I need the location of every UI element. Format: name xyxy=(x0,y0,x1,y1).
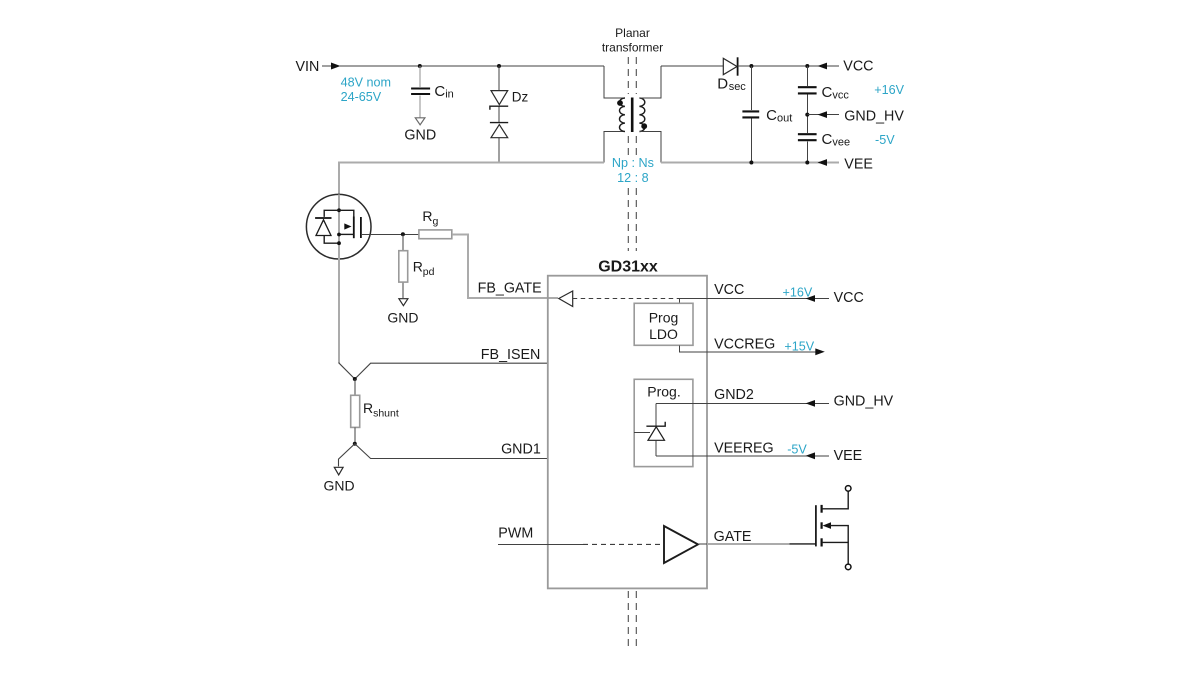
node junction dot Dz xyxy=(497,64,501,68)
value label Np Ns ratio xyxy=(612,156,654,185)
wire Rpd stub xyxy=(402,234,404,298)
transistor Q2 channel segments xyxy=(820,505,822,547)
svg-text:GND: GND xyxy=(404,127,436,143)
wire bottom rail left gray xyxy=(339,163,604,364)
node dot Cvee rail bottom xyxy=(805,161,809,165)
gate driver buffer triangle xyxy=(664,526,698,563)
svg-text:transformer: transformer xyxy=(602,41,663,55)
transistor Q1 body arrow xyxy=(344,223,351,229)
wire Cin stub xyxy=(419,66,421,118)
FB_GATE receiver buffer triangle xyxy=(559,291,573,307)
wire Cout branch xyxy=(750,66,752,163)
diode Dz top zener xyxy=(490,91,508,110)
VCC arrow mid xyxy=(806,295,816,302)
wire GATE external gray xyxy=(707,543,790,545)
svg-text:VCCREG: VCCREG xyxy=(714,336,775,352)
svg-text:Dz: Dz xyxy=(512,90,529,105)
transformer T1 secondary winding xyxy=(639,98,644,132)
svg-text:+15V: +15V xyxy=(784,340,814,354)
svg-text:48V nom: 48V nom xyxy=(341,76,391,90)
svg-text:GND1: GND1 xyxy=(501,442,541,458)
ground GND below Rshunt xyxy=(323,467,354,493)
node dot Q1 anode junction xyxy=(337,241,341,245)
wire transformer primary bottom step xyxy=(604,132,625,163)
svg-text:+16V: +16V xyxy=(783,286,813,300)
transistor Q2 drain terminal xyxy=(845,486,851,492)
wire Q1 gate to Rg xyxy=(361,233,419,235)
capacitor Cvcc value label xyxy=(822,84,850,102)
ground GND below Cin xyxy=(404,118,436,144)
svg-text:Planar: Planar xyxy=(615,26,650,40)
capacitor Cin xyxy=(411,89,430,95)
svg-text:VCC: VCC xyxy=(843,59,873,75)
svg-text:12 : 8: 12 : 8 xyxy=(617,171,649,185)
node dot Rshunt bottom xyxy=(353,442,357,446)
svg-text:PWM: PWM xyxy=(498,525,533,541)
wire VCC external xyxy=(707,298,829,300)
diode Dz bottom zener xyxy=(490,123,508,138)
wire Cvcc Cvee rail xyxy=(806,66,808,163)
svg-text:GND_HV: GND_HV xyxy=(844,108,904,124)
transistor Q1 channel bar xyxy=(353,217,355,239)
wire VEEREG external xyxy=(707,455,829,457)
resistor R_pd label xyxy=(413,258,435,278)
transistor Q2 drain lead xyxy=(822,491,849,509)
wire GND1 diagonal xyxy=(339,444,548,467)
svg-text:pd: pd xyxy=(423,266,435,278)
VEE arrow top xyxy=(818,159,828,166)
capacitor Cin value label xyxy=(434,83,453,101)
op-amp U1 GD31xx IC outline xyxy=(548,276,707,589)
transistor Q1 drain elbow xyxy=(339,210,354,216)
resistor R_shunt xyxy=(351,395,360,427)
diode Q1 body diode cathode link xyxy=(324,210,339,217)
transformer primary polarity dot xyxy=(617,100,623,106)
capacitor Cout xyxy=(742,111,759,117)
wire VCCREG from LDO xyxy=(680,345,708,352)
diode Q1 body diode xyxy=(315,218,331,236)
svg-text:FB_ISEN: FB_ISEN xyxy=(481,347,541,363)
wire VCCREG external xyxy=(707,351,816,353)
svg-text:in: in xyxy=(445,89,454,101)
wire transformer secondary bottom step xyxy=(639,132,661,163)
wire VCC to Prog LDO xyxy=(680,299,708,305)
capacitor Cvee value label xyxy=(822,131,851,149)
VCCREG arrow right xyxy=(815,348,825,355)
node dot Cvcc rail top xyxy=(805,64,809,68)
svg-text:R: R xyxy=(413,258,423,274)
transistor Q2 source lead xyxy=(822,542,849,564)
svg-text:GND_HV: GND_HV xyxy=(834,393,894,409)
transformer T1 primary winding xyxy=(619,98,624,132)
svg-text:GND: GND xyxy=(387,309,418,325)
transistor Q2 body arrow xyxy=(823,522,849,542)
wire secondary top rail to Dsec xyxy=(661,65,723,67)
node dot Rshunt top xyxy=(353,377,357,381)
dashed axis below IC xyxy=(628,591,636,648)
diode Dsec xyxy=(723,57,737,75)
value label 48V nom 24-65V xyxy=(341,76,391,105)
svg-text:shunt: shunt xyxy=(373,407,399,419)
svg-text:R: R xyxy=(422,208,432,224)
zener reference stub xyxy=(634,432,650,434)
node junction dot Cin xyxy=(418,64,422,68)
node dot Q1 source xyxy=(337,233,341,237)
wire Rg to FB_GATE gray xyxy=(452,234,558,297)
svg-text:GND2: GND2 xyxy=(714,387,754,403)
wire PWM dashed link xyxy=(583,543,662,545)
svg-text:VIN: VIN xyxy=(296,59,320,75)
transistor Q1 gate bar xyxy=(360,217,362,238)
Prog LDO block xyxy=(634,303,693,345)
svg-text:Np : Ns: Np : Ns xyxy=(612,156,654,170)
node dot GND_HV tap xyxy=(805,113,809,117)
svg-text:g: g xyxy=(433,215,439,227)
svg-text:VEE: VEE xyxy=(834,448,863,464)
transformer secondary polarity dot xyxy=(641,123,647,129)
svg-text:C: C xyxy=(822,131,833,148)
svg-text:out: out xyxy=(777,113,792,125)
wire bottom rail right gray xyxy=(661,162,839,164)
svg-text:GND: GND xyxy=(323,477,354,493)
wire VEEREG internal xyxy=(656,455,707,457)
svg-text:GATE: GATE xyxy=(714,529,752,545)
svg-text:+16V: +16V xyxy=(874,83,904,97)
VIN input arrow xyxy=(322,63,341,70)
svg-text:vee: vee xyxy=(832,136,850,148)
wire top rail VIN to transformer xyxy=(339,65,604,67)
svg-text:24-65V: 24-65V xyxy=(341,90,382,104)
VCC arrow top xyxy=(818,63,828,70)
capacitor Cvee xyxy=(798,134,817,140)
svg-text:VCC: VCC xyxy=(714,282,744,298)
wire GND2 external xyxy=(707,402,829,404)
transformer T1 core xyxy=(631,98,634,133)
svg-text:R: R xyxy=(363,400,373,416)
svg-text:GD31xx: GD31xx xyxy=(598,259,658,276)
svg-text:VEEREG: VEEREG xyxy=(714,440,774,456)
resistor R_g xyxy=(419,230,452,239)
wire transformer secondary top step xyxy=(639,66,661,98)
node dot Cout top xyxy=(749,64,753,68)
svg-text:vcc: vcc xyxy=(832,90,849,102)
label Planar transformer xyxy=(602,26,663,55)
wire GND2 internal xyxy=(656,402,707,404)
diode Q1 body diode anode link xyxy=(324,236,339,244)
svg-text:Prog.: Prog. xyxy=(647,384,680,400)
svg-text:sec: sec xyxy=(729,81,747,93)
wire FB_ISEN diagonal xyxy=(339,363,548,379)
node dot Q1 drain xyxy=(337,208,341,212)
zener diode in Prog block xyxy=(646,403,665,455)
svg-text:C: C xyxy=(822,84,833,101)
node dot Cout bottom xyxy=(749,161,753,165)
GND_HV arrow top xyxy=(818,111,828,118)
Prog LDO block label xyxy=(649,310,679,342)
svg-text:LDO: LDO xyxy=(649,326,678,342)
transistor Q2 gate lead xyxy=(790,543,816,545)
resistor R_shunt label xyxy=(363,400,399,420)
resistor R_pd xyxy=(399,251,408,282)
svg-text:FB_GATE: FB_GATE xyxy=(478,281,542,297)
svg-text:C: C xyxy=(434,83,445,100)
transistor Q1 sense FET circle xyxy=(306,194,371,259)
ground GND below Rpd xyxy=(387,299,418,326)
dashed planar core axis top xyxy=(628,57,636,251)
capacitor Cvcc xyxy=(798,87,817,93)
resistor R_g label xyxy=(422,208,438,228)
wire GND_HV tap xyxy=(807,114,839,116)
wire PWM input xyxy=(498,543,583,545)
wire vertical through Q1 gray xyxy=(338,195,340,363)
svg-text:VCC: VCC xyxy=(834,290,864,306)
wire Dsec to VCC arrow xyxy=(738,65,839,67)
wire Rshunt bottom stub xyxy=(354,427,356,443)
node dot gate Rg Rpd junction xyxy=(401,232,405,236)
wire FB_GATE dashed link xyxy=(573,298,680,300)
svg-text:D: D xyxy=(717,75,728,92)
wire transformer primary top step xyxy=(604,66,625,98)
svg-text:-5V: -5V xyxy=(875,133,895,147)
svg-text:VEE: VEE xyxy=(844,157,873,173)
capacitor Cout value label xyxy=(766,107,792,125)
transistor Q1 source stub xyxy=(339,233,354,235)
svg-text:C: C xyxy=(766,107,777,124)
wire Rshunt top stub xyxy=(354,379,356,395)
transistor Q2 source terminal xyxy=(845,564,851,570)
wire GATE to IC edge xyxy=(698,543,707,545)
GND_HV arrow mid xyxy=(806,400,816,407)
diode Dsec label xyxy=(717,75,746,93)
svg-text:Prog: Prog xyxy=(649,310,679,326)
Prog zener block xyxy=(634,379,693,466)
wire Dz branch xyxy=(498,66,500,163)
svg-text:-5V: -5V xyxy=(787,443,807,457)
transistor Q2 gate bar xyxy=(815,505,817,546)
VEE arrow mid xyxy=(806,452,816,459)
